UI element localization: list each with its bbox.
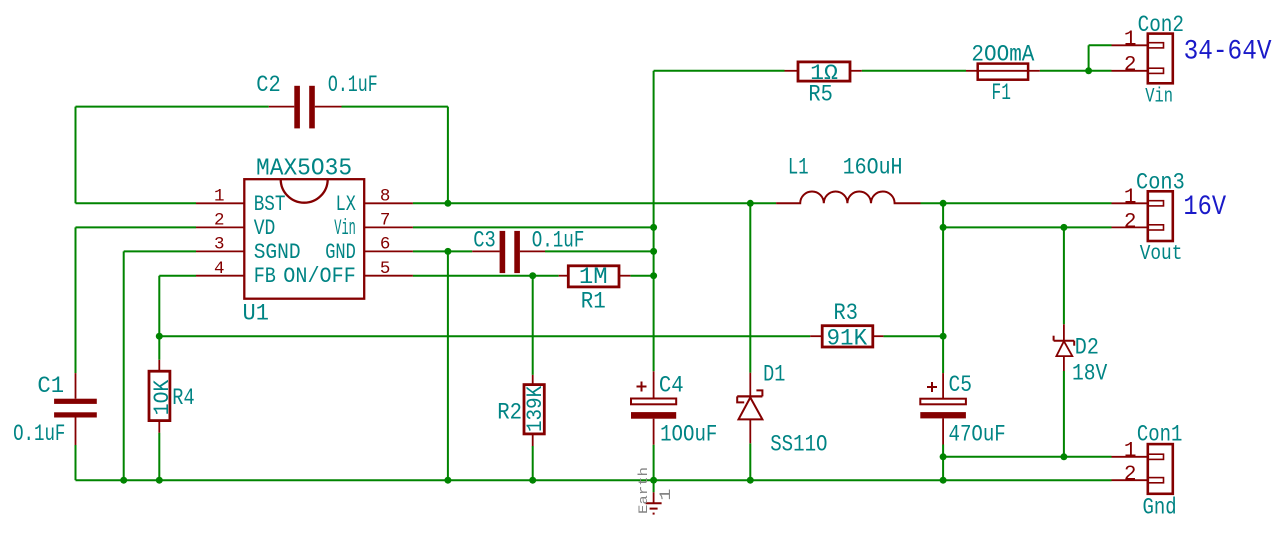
svg-text:MAX5O35: MAX5O35 (256, 155, 352, 182)
svg-text:C4: C4 (659, 373, 684, 400)
svg-text:R4: R4 (172, 385, 194, 412)
svg-text:5: 5 (380, 259, 391, 279)
svg-text:D1: D1 (763, 362, 785, 389)
svg-text:R2: R2 (497, 399, 522, 426)
svg-text:Vin: Vin (1145, 86, 1173, 109)
svg-text:SS11O: SS11O (770, 432, 827, 459)
svg-text:3: 3 (214, 235, 225, 255)
svg-text:8: 8 (380, 187, 391, 207)
svg-text:O.1uF: O.1uF (532, 228, 585, 255)
svg-text:R3: R3 (834, 300, 858, 327)
svg-text:7: 7 (380, 211, 391, 231)
svg-text:2: 2 (1124, 464, 1137, 487)
svg-text:R1: R1 (581, 288, 606, 315)
svg-text:2: 2 (214, 211, 225, 231)
svg-text:1: 1 (1124, 440, 1137, 463)
svg-text:91K: 91K (827, 325, 868, 352)
svg-text:Gnd: Gnd (1143, 495, 1177, 522)
svg-text:C5: C5 (949, 372, 973, 399)
svg-text:1: 1 (657, 489, 675, 501)
svg-text:Con1: Con1 (1137, 421, 1183, 448)
svg-text:18V: 18V (1072, 361, 1107, 388)
svg-text:Con3: Con3 (1136, 169, 1185, 196)
svg-text:47OuF: 47OuF (949, 422, 1006, 449)
svg-text:GND: GND (325, 240, 356, 265)
svg-text:1OOuF: 1OOuF (660, 422, 717, 449)
svg-text:Con2: Con2 (1138, 12, 1184, 39)
svg-text:O.1uF: O.1uF (13, 421, 65, 448)
svg-text:1M: 1M (579, 264, 608, 291)
svg-text:1: 1 (1124, 187, 1137, 210)
svg-text:2: 2 (1124, 54, 1137, 77)
svg-text:R5: R5 (808, 82, 833, 109)
svg-text:139K: 139K (523, 385, 548, 432)
svg-text:34-64V: 34-64V (1184, 37, 1272, 68)
svg-text:C3: C3 (473, 228, 496, 255)
svg-text:Vout: Vout (1140, 243, 1183, 266)
svg-text:U1: U1 (243, 300, 269, 327)
svg-text:1OK: 1OK (150, 379, 175, 415)
svg-text:1: 1 (1124, 29, 1137, 52)
svg-text:C1: C1 (37, 373, 64, 400)
svg-text:Vin: Vin (334, 216, 356, 241)
svg-text:16V: 16V (1183, 192, 1226, 223)
svg-text:4: 4 (214, 259, 225, 279)
svg-text:16OuH: 16OuH (843, 154, 903, 181)
svg-text:FB: FB (254, 264, 276, 289)
svg-text:2: 2 (1124, 211, 1137, 234)
svg-text:BST: BST (254, 192, 286, 217)
svg-text:LX: LX (336, 192, 356, 217)
svg-text:VD: VD (254, 216, 276, 241)
svg-text:ON/OFF: ON/OFF (283, 264, 356, 289)
svg-text:SGND: SGND (254, 240, 301, 265)
svg-text:C2: C2 (256, 72, 281, 99)
svg-text:2OOmA: 2OOmA (971, 41, 1035, 68)
svg-text:Earth: Earth (637, 467, 651, 514)
svg-text:1: 1 (214, 187, 225, 207)
svg-text:D2: D2 (1075, 334, 1099, 361)
svg-text:O.1uF: O.1uF (328, 72, 378, 99)
svg-text:F1: F1 (992, 80, 1011, 107)
svg-text:L1: L1 (788, 154, 809, 181)
svg-text:6: 6 (380, 235, 391, 255)
